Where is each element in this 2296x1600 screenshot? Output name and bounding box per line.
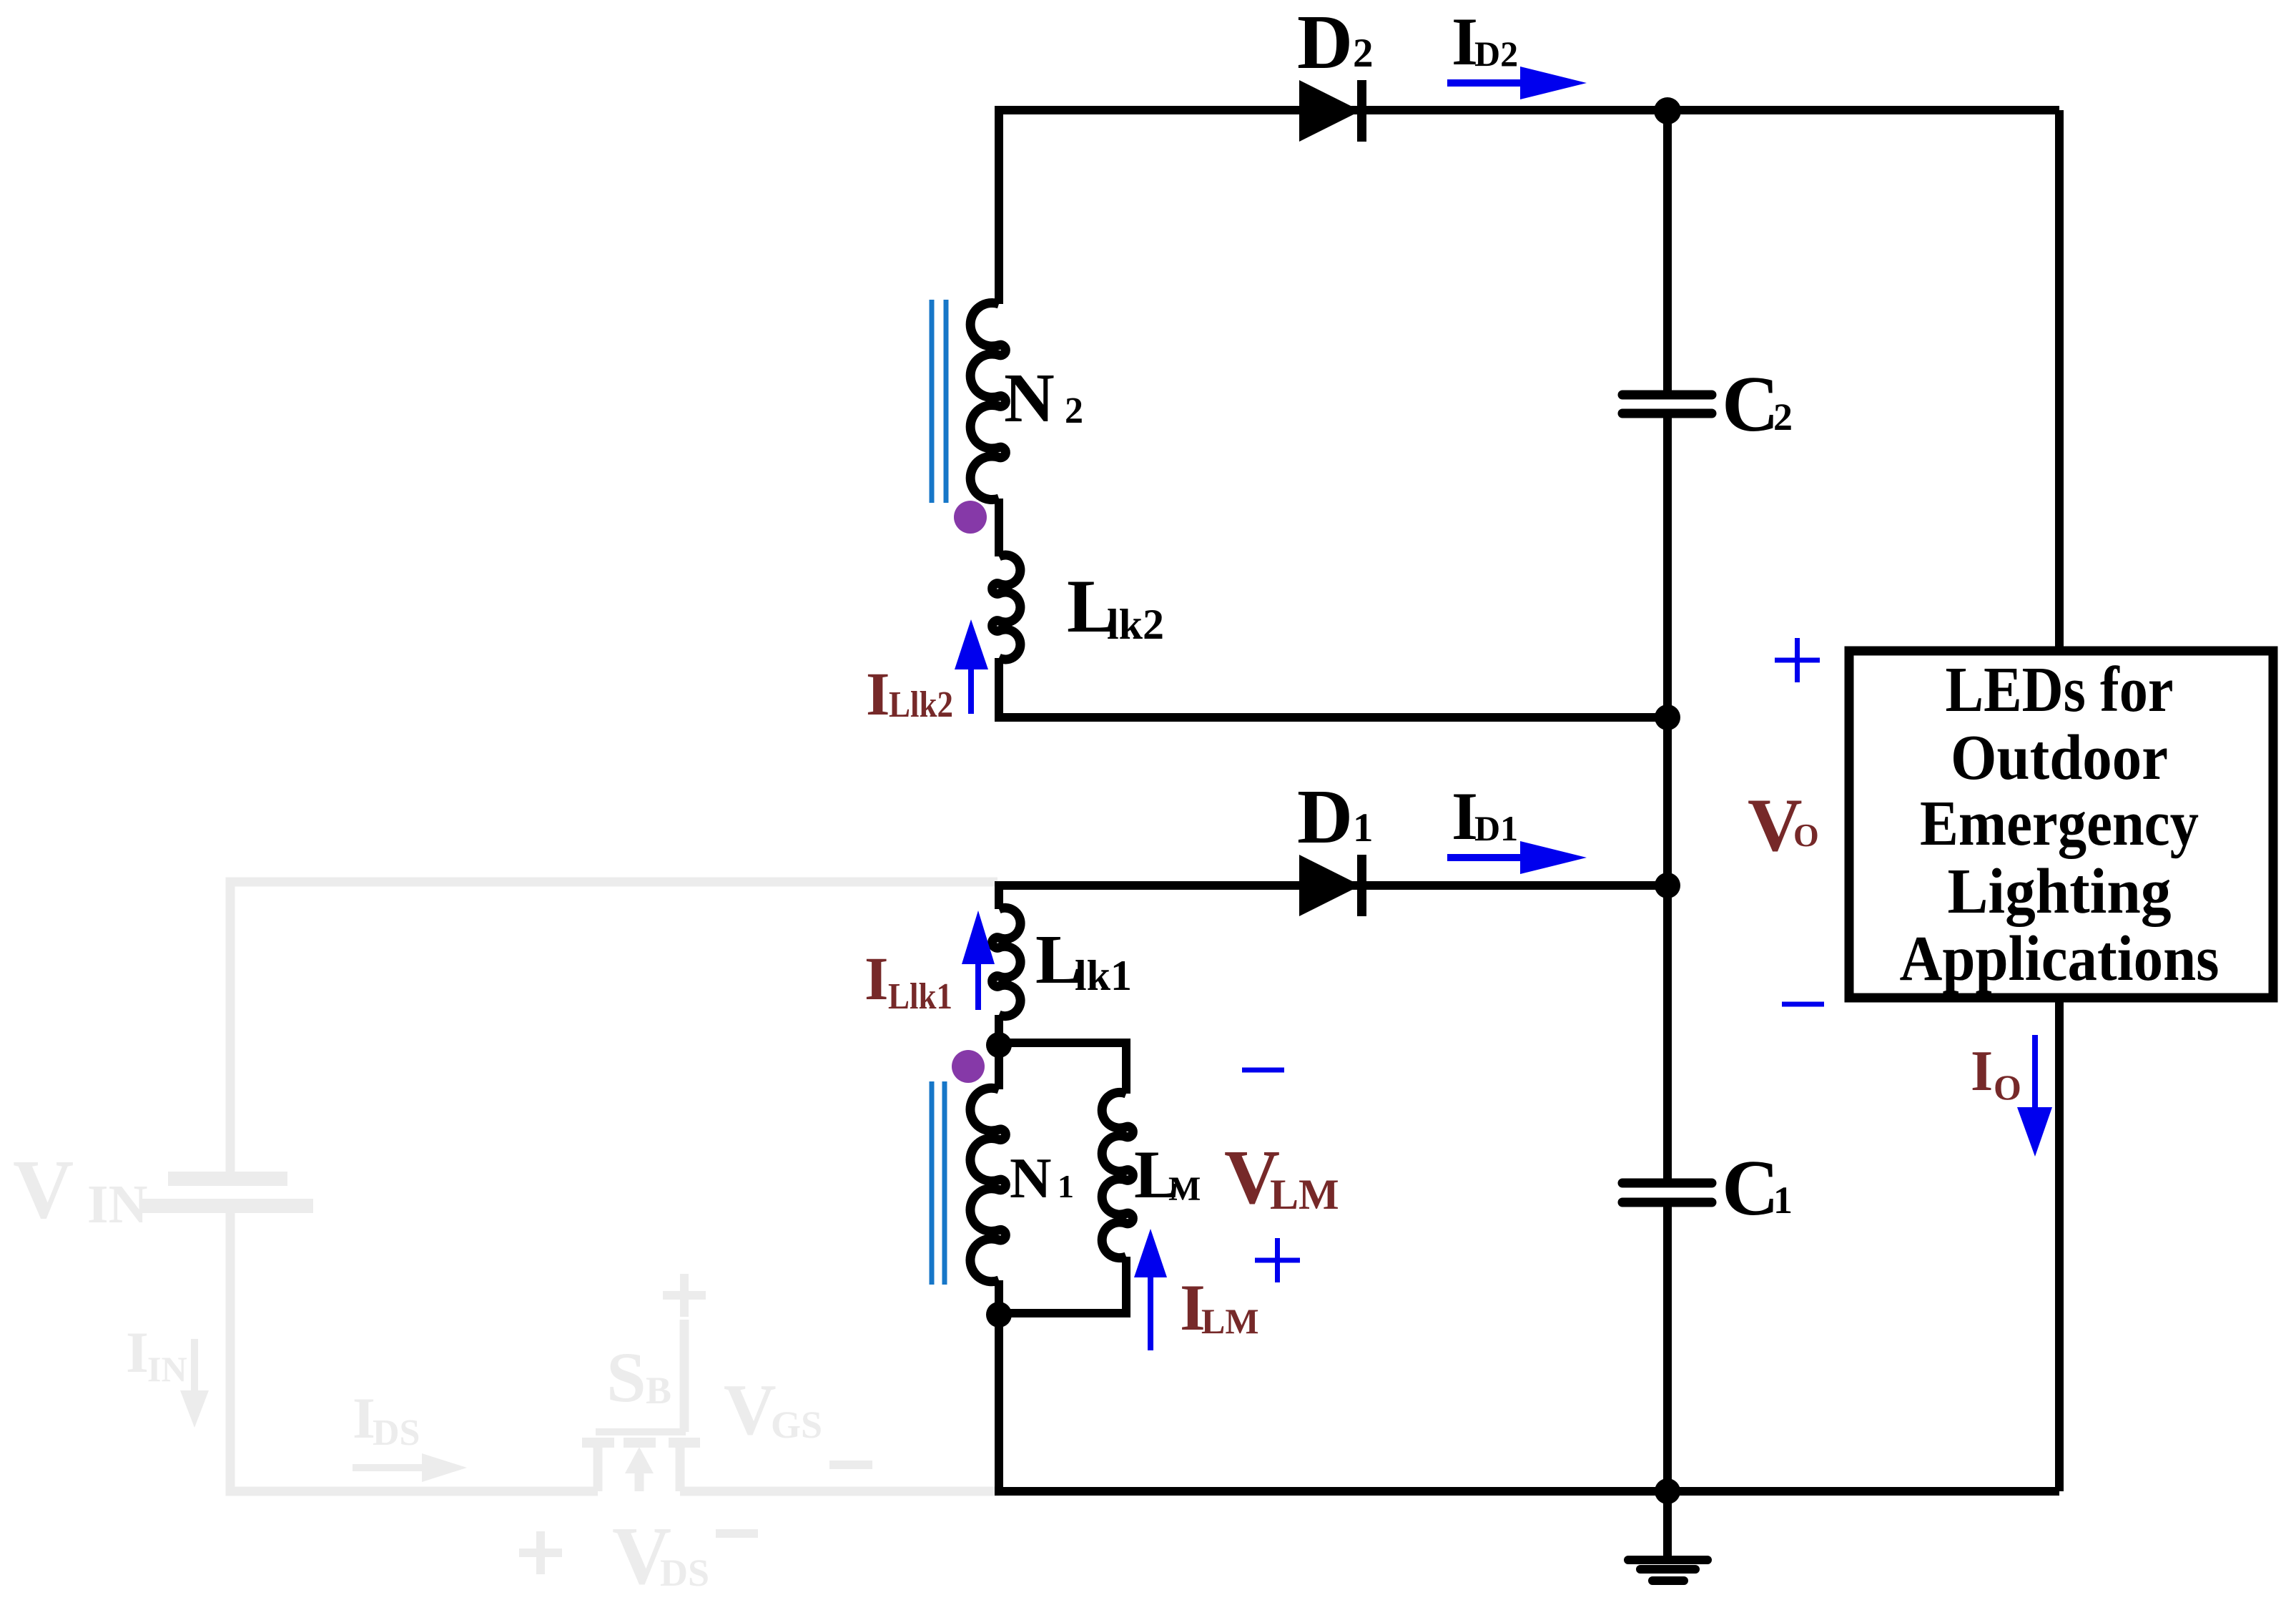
arrow IIN (191, 1339, 198, 1395)
polarity dot N1 (952, 1050, 985, 1083)
svg-text:2: 2 (1353, 31, 1374, 76)
svg-text:M: M (1168, 1170, 1201, 1208)
transistor SB arrow head (625, 1447, 654, 1473)
ground (1628, 1560, 1708, 1581)
svg-text:Llk2: Llk2 (889, 684, 953, 725)
node dot ground (1655, 1478, 1680, 1504)
inductor N2 winding (970, 303, 1005, 499)
svg-text:lk1: lk1 (1075, 952, 1132, 999)
svg-text:S: S (606, 1338, 646, 1417)
diode D1 (1299, 855, 1361, 916)
polarity dot N2 (954, 501, 987, 534)
svg-text:Llk1: Llk1 (888, 976, 952, 1017)
wire Llk1 to junction node (995, 1015, 1003, 1049)
node dot Llk1/N1 junction (986, 1032, 1012, 1058)
wire lower junction down to bottom wire (995, 1313, 1003, 1491)
wire top horizontal (999, 106, 2059, 114)
svg-text:I: I (864, 944, 888, 1013)
svg-text:B: B (646, 1369, 671, 1412)
arrow IO (2032, 1035, 2038, 1109)
wire Llk2 horizontal to C column (995, 713, 1667, 722)
wire C1 bottom to ground node (1663, 1207, 1672, 1491)
diode D2 (1299, 80, 1361, 142)
svg-text:GS: GS (771, 1403, 822, 1446)
svg-text:Applications: Applications (1900, 923, 2219, 994)
node dot N1 bottom junction (986, 1302, 1012, 1327)
svg-text:1: 1 (1773, 1179, 1793, 1222)
LED load box (1849, 651, 2273, 998)
label VGS plus (663, 1274, 706, 1317)
svg-text:Lighting: Lighting (1948, 856, 2172, 927)
svg-text:Outdoor: Outdoor (1951, 722, 2168, 793)
svg-text:I: I (1971, 1040, 1993, 1103)
inductor Llk2 winding (992, 555, 1020, 659)
svg-text:C: C (1722, 360, 1779, 448)
svg-text:N: N (1010, 1146, 1052, 1210)
label VO minus (1782, 1002, 1824, 1007)
label VLM minus (1242, 1068, 1284, 1073)
label VLM plus (1255, 1238, 1300, 1282)
arrow ID2 (1447, 79, 1527, 87)
svg-text:IN: IN (147, 1349, 187, 1389)
svg-text:DS: DS (660, 1551, 709, 1594)
inductor LM winding (1102, 1092, 1133, 1257)
wire C2 bottom to C1 top (1663, 418, 1672, 1179)
svg-text:N: N (1004, 360, 1055, 437)
battery VIN plates (168, 1172, 287, 1186)
label VDS minus (716, 1529, 758, 1538)
node dot Llk2 wire (1655, 705, 1680, 730)
node dot D1 wire (1655, 873, 1680, 898)
core lines N2 transformer (932, 300, 946, 503)
arrow IDS (353, 1464, 425, 1471)
svg-text:1: 1 (1353, 805, 1374, 850)
faded input stage group (142, 882, 999, 1491)
svg-text:I: I (866, 659, 890, 728)
wire D1 horizontal (999, 881, 1667, 890)
svg-text:O: O (1994, 1067, 2021, 1107)
wire faded battery down to bottom (230, 1213, 598, 1491)
svg-text:D1: D1 (1474, 808, 1518, 848)
svg-text:2: 2 (1773, 396, 1793, 438)
wire ground stub (1663, 1491, 1672, 1559)
svg-text:V: V (724, 1370, 777, 1451)
svg-text:LM: LM (1201, 1301, 1259, 1341)
capacitor C1 (1622, 1183, 1712, 1202)
svg-text:D: D (1297, 775, 1353, 860)
wire right vertical upper (2055, 110, 2064, 652)
label VO plus (1775, 638, 1820, 682)
transistor SB mosfet (596, 1428, 686, 1435)
wire N1 bottom to lower junction (995, 1280, 1003, 1318)
wire LM bottom to lower junction (999, 1257, 1126, 1313)
wire Llk2 to bottom node wire (995, 658, 1003, 722)
svg-text:D: D (1297, 0, 1353, 85)
wire faded bottom right of mosfet (680, 1487, 999, 1496)
capacitor C2 (1622, 395, 1712, 413)
node dot top (C2 column) (1654, 97, 1681, 124)
main black wires (995, 106, 2059, 1559)
svg-text:D2: D2 (1474, 34, 1518, 74)
wire N2 to Llk2 (995, 499, 1003, 556)
core lines N1 transformer (932, 1081, 945, 1285)
wire left vertical top (to N2) (995, 106, 1003, 304)
svg-text:2: 2 (1065, 391, 1083, 431)
svg-text:IN: IN (87, 1174, 147, 1235)
svg-text:LM: LM (1270, 1171, 1339, 1218)
wire right vertical lower (2055, 1000, 2064, 1491)
svg-text:Emergency: Emergency (1920, 788, 2199, 859)
label VDS plus (519, 1531, 562, 1574)
inductor Llk1 winding (992, 908, 1020, 1016)
arrow ILM (1148, 1275, 1153, 1350)
wire junction to N1 top (995, 1041, 1003, 1089)
arrow ILlk2 (968, 667, 974, 714)
wire faded top from battery to Llk1 top (230, 882, 997, 1172)
svg-text:I: I (126, 1320, 149, 1385)
wire junction to LM branch top (999, 1043, 1126, 1094)
svg-text:V: V (13, 1142, 74, 1236)
svg-text:lk2: lk2 (1107, 601, 1164, 648)
arrow ILlk1 (975, 962, 981, 1010)
arrow ID1 (1447, 854, 1527, 861)
svg-text:C: C (1722, 1144, 1779, 1232)
svg-text:LEDs for: LEDs for (1946, 654, 2174, 725)
inductor N1 winding (970, 1088, 1005, 1282)
wire mid vertical: node to C2 top (1663, 110, 1672, 391)
svg-text:1: 1 (1058, 1168, 1074, 1204)
svg-text:DS: DS (373, 1413, 420, 1453)
wire bottom horizontal (995, 1487, 2059, 1496)
label VGS minus (829, 1461, 872, 1469)
wire D1 left end down to Llk1 (995, 881, 1003, 909)
svg-text:O: O (1793, 817, 1819, 853)
